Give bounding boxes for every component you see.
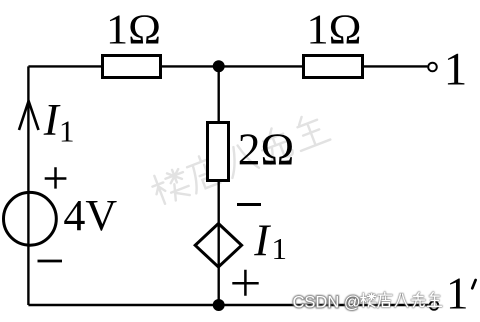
svg-text:2Ω: 2Ω xyxy=(238,125,295,175)
svg-text:4V: 4V xyxy=(63,191,117,240)
svg-text:I: I xyxy=(43,95,61,145)
svg-text:1: 1 xyxy=(446,269,469,319)
svg-text:1: 1 xyxy=(272,231,288,266)
svg-text:1: 1 xyxy=(444,44,468,96)
svg-text:CSDN @: CSDN @ xyxy=(293,294,361,312)
svg-text:1Ω: 1Ω xyxy=(307,8,362,54)
svg-text:1Ω: 1Ω xyxy=(106,8,161,54)
svg-text:1: 1 xyxy=(59,114,75,149)
svg-text:I: I xyxy=(253,216,271,266)
